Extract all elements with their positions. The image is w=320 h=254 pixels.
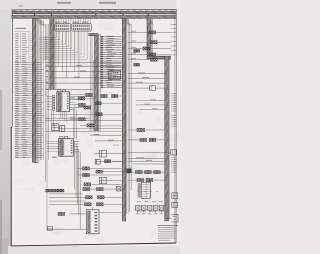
frame right border: [175, 9, 177, 243]
wire K3c feed: [70, 118, 79, 120]
wire K3d to bus: [95, 125, 122, 127]
wire W60: [49, 193, 83, 195]
control module U1: [57, 90, 70, 112]
drop wires below U1: [60, 112, 62, 119]
ladder wires bus V3 to V4: [101, 36, 122, 88]
wire W81: [128, 160, 165, 162]
wire K45: [102, 171, 122, 173]
wire K11 feed: [49, 196, 86, 198]
wire W70: [128, 73, 165, 75]
connector pair K2: [86, 93, 93, 96]
relay K17: [99, 177, 106, 183]
vertical bus V4 lines: [126, 19, 128, 214]
connector X1 pin bar: [88, 211, 90, 233]
module U1 left pin contacts: [52, 95, 54, 110]
connector pair K28: [140, 138, 147, 141]
wire W41: [46, 120, 122, 122]
connector pair K14: [97, 203, 104, 206]
wire K28 left: [128, 139, 140, 141]
connector pair K3c: [79, 118, 86, 121]
wire W71: [128, 77, 165, 79]
left ladder wires W100-W143: [15, 62, 43, 158]
plain riser wires right of V1: [39, 20, 41, 160]
wire K12 to bus: [105, 196, 122, 198]
vertical bus V5 bar: [147, 18, 150, 59]
wire K5 to bus: [65, 127, 122, 129]
connector pair K44: [105, 160, 111, 163]
connector pair K7: [83, 174, 90, 177]
connector pair K43: [96, 113, 102, 116]
connector pair K29: [149, 138, 156, 141]
note text A: [46, 88, 50, 91]
relay K16: [95, 159, 100, 164]
relay K5 box: [60, 126, 65, 132]
connector pair K41: [112, 95, 118, 98]
left edge lower streak: [0, 200, 2, 254]
vertical bus V2 lines: [54, 19, 56, 90]
connector pair K11: [86, 196, 93, 199]
wire label GRIS: [93, 133, 99, 136]
long wire W33: [46, 82, 101, 84]
wire K7 to bus V4: [90, 174, 122, 176]
wire K8 to bus V4: [91, 183, 121, 185]
wire X1 to bus V4: [99, 212, 122, 214]
legend header rule: [15, 31, 31, 33]
connector pair K27: [137, 128, 145, 131]
module U1 left pin wires: [47, 96, 52, 109]
wire W72: [128, 82, 165, 84]
connector row K35: [46, 189, 52, 192]
long wire W29: [46, 62, 122, 64]
vertical bus V1 bar: [32, 18, 36, 163]
plain riser wires left of V2: [45, 24, 47, 182]
page right margin: [177, 0, 180, 254]
wire W42: [46, 131, 122, 133]
wire K14 to bus: [104, 203, 122, 205]
vertical bus V4 bar: [122, 18, 125, 221]
vertical bus V6 line: [168, 57, 170, 219]
wire U2 to K6: [78, 167, 83, 169]
connector pair K40: [101, 95, 107, 98]
wire to X1 lower: [46, 228, 86, 230]
module U1 right pin wires: [70, 95, 75, 110]
drop wires from J1 pins: [57, 31, 59, 66]
inline box K46: [117, 187, 122, 192]
wire W75: [140, 109, 165, 111]
bus V5 entry wedge: [148, 19, 152, 25]
wire stubs V2 to K4: [51, 110, 53, 124]
connector X1 pin marks: [95, 212, 98, 232]
page background: [0, 0, 180, 254]
component box M1: [172, 193, 178, 199]
long wire W30: [46, 65, 122, 67]
module U2 label TPS: [52, 157, 57, 158]
wire stub V1 bottom: [34, 162, 38, 164]
inline module A1: [109, 70, 121, 79]
wire W35: [51, 114, 122, 116]
relay K15: [99, 150, 106, 157]
component box M2: [172, 202, 178, 207]
bus elbow V5-V6: [147, 56, 171, 58]
connector X2 hatch: [138, 183, 141, 198]
bottom-left corner shadow: [0, 238, 8, 254]
sensor box B2: [171, 150, 177, 155]
bus elbow J2-V3: [89, 34, 99, 36]
wire W40: [46, 117, 91, 119]
frame left border lower: [10, 127, 12, 246]
bus to connector stubs: [55, 18, 57, 24]
drawing sheet area: [11, 9, 177, 246]
page left margin gradient: [0, 0, 11, 254]
vertical bus V3 bar: [95, 34, 98, 132]
frame top border: [11, 8, 176, 11]
frame bottom border: [11, 243, 176, 246]
vertical bus V1 lines: [36, 19, 38, 163]
connector J2 label: [73, 22, 80, 23]
wire W34: [46, 89, 94, 91]
connector pair K3: [84, 106, 91, 109]
connector pair K3b: [79, 103, 86, 106]
wire K16 to bus: [100, 161, 121, 163]
wire K29 right: [156, 139, 164, 141]
connector pair K45: [96, 170, 102, 173]
vertical bus V6 bar: [165, 56, 169, 221]
page left margin shadow: [0, 0, 11, 254]
wire W31 label: [80, 69, 86, 72]
wire K3d feed: [80, 124, 87, 126]
frame right inner line: [174, 9, 176, 243]
wire K44: [112, 160, 123, 162]
control module U2: [59, 137, 74, 157]
header page number left: [57, 2, 71, 4]
row labels above: [137, 200, 141, 203]
wire W73: [136, 100, 165, 102]
wire B2: [128, 151, 171, 153]
riser bundle center: [74, 141, 76, 189]
caption text bottom center: [137, 211, 146, 212]
wire node labels row: [46, 65, 48, 66]
wire K10 to bus: [104, 188, 122, 190]
vertical bus V5 lines: [150, 19, 152, 58]
connector J1 label: [55, 22, 61, 23]
wire W32 label: [74, 76, 80, 79]
left edge dark streak: [0, 90, 2, 150]
legend title CONDUCTORES: [16, 28, 27, 29]
wire W40 label: [70, 116, 75, 119]
connector pair K42: [95, 102, 101, 105]
module U2 right pin wires: [73, 141, 79, 152]
wire W61: [49, 200, 86, 202]
connector pair K6: [83, 167, 90, 170]
bus V1 entry wedge: [36, 19, 41, 26]
multi-pin connector X2: [142, 182, 151, 198]
wire U1 to K3: [75, 106, 85, 108]
vertical bus V3 lines: [98, 34, 100, 131]
module U2 left pin wires: [47, 141, 59, 151]
connector pair K3d: [87, 124, 94, 127]
junction blob on bus V4: [127, 169, 132, 173]
connector pair K26: [134, 63, 140, 66]
connector pair K25: [134, 50, 140, 53]
connector pair K1: [78, 97, 85, 100]
wire U1 long right A: [70, 95, 95, 97]
inline pair K18: [58, 212, 65, 215]
wire K13 feed: [49, 203, 85, 205]
sheet corner note: [14, 11, 18, 12]
wire to M3: [166, 217, 172, 219]
bus V4 entry wedge: [124, 19, 129, 26]
frame left border upper: [11, 10, 13, 127]
wire K42 to bus: [101, 102, 121, 104]
wire K27 right: [145, 129, 165, 131]
scan mottling: [12, 16, 183, 248]
inline box K19: [48, 226, 53, 230]
long wire W32: [50, 77, 122, 79]
row pairs K32: [154, 171, 161, 174]
connector pair K9: [83, 188, 90, 191]
fan wires connector J1/J2 to bus V1: [39, 31, 87, 59]
sheet number note: [19, 5, 23, 6]
wire to X1 upper: [70, 213, 86, 215]
wire W51: [95, 140, 122, 142]
wire W50: [90, 134, 122, 136]
wire K9-K10: [90, 188, 96, 190]
wire K6 to bus V4: [90, 167, 122, 169]
riser wires below V3: [89, 35, 91, 131]
wire W51 label: [108, 139, 114, 142]
long wire W31: [46, 71, 122, 73]
bus bar tick labels: [13, 9, 16, 12]
page bottom margin: [0, 246, 180, 254]
connector J2: [72, 24, 92, 31]
wire U2 to K7: [78, 174, 83, 176]
wire K15 to bus: [107, 153, 122, 155]
wire U1 to K3b: [75, 104, 79, 106]
main bus bar B1: [11, 11, 176, 13]
connector X1 body: [86, 210, 99, 234]
sensor box B1: [150, 86, 155, 91]
row pairs K30: [136, 171, 143, 174]
page top margin: [0, 0, 180, 9]
right margin wire destination labels: [171, 24, 176, 173]
connector J1: [55, 24, 71, 31]
wire K17 to bus: [107, 180, 122, 182]
wire W80: [128, 158, 165, 160]
wire U1 to K1: [75, 99, 79, 101]
tick marks above row: [138, 190, 140, 193]
row pairs K31: [145, 171, 152, 174]
title block notes text: [158, 226, 179, 241]
wire row K33-34: [128, 179, 137, 181]
connector pair K12: [98, 196, 105, 199]
ground connector row G1-G5: [135, 206, 163, 215]
wire K41 to bus: [118, 95, 122, 97]
main bus bar B2: [11, 16, 176, 19]
wire K27 left: [128, 129, 137, 131]
frame left border jog: [11, 126, 12, 128]
wire W74: [136, 104, 165, 106]
wire K15 feed: [94, 153, 100, 155]
row pairs K33: [137, 179, 144, 182]
connector pair K13: [85, 203, 92, 206]
connector pair K10: [97, 188, 104, 191]
note text B: [113, 144, 119, 147]
wire U1 to K2: [75, 94, 86, 96]
wire B1 left: [128, 87, 150, 89]
wire U1 long right B: [70, 98, 95, 100]
vertical bus V2 bar: [50, 18, 54, 89]
connector pair K8: [84, 183, 91, 186]
header page number right: [99, 2, 116, 4]
wire B1 right: [155, 87, 164, 89]
connector X1 top stub: [92, 207, 94, 210]
relay K4 box: [52, 124, 58, 131]
bus drop stubs: [14, 18, 16, 19]
riser bundle upper: [72, 108, 74, 139]
legend wire code rows: [15, 32, 33, 62]
row pairs K34: [146, 179, 153, 182]
wire W82: [133, 163, 165, 165]
wire row K30-32: [128, 171, 136, 173]
bus junction dots: [33, 14, 36, 16]
wire W30 label: [76, 64, 82, 67]
right top connector pairs K20-K24 with wires: [128, 31, 171, 62]
component bracket M3: [172, 215, 179, 223]
